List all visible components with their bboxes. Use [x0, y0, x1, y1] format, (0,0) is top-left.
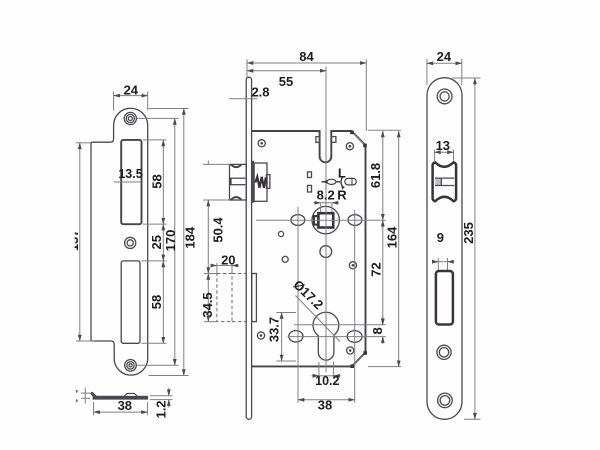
svg-text:8: 8	[370, 327, 385, 334]
svg-text:55: 55	[279, 74, 293, 89]
svg-text:8.2: 8.2	[317, 187, 335, 202]
svg-text:R: R	[337, 188, 347, 203]
svg-text:L: L	[338, 166, 346, 181]
svg-text:164: 164	[385, 226, 400, 248]
svg-text:38: 38	[318, 398, 332, 413]
svg-text:170: 170	[163, 230, 178, 252]
svg-text:13: 13	[436, 138, 450, 153]
svg-text:235: 235	[461, 222, 476, 244]
svg-text:2.8: 2.8	[251, 85, 269, 100]
svg-text:9: 9	[437, 230, 444, 245]
svg-text:24: 24	[437, 49, 452, 64]
svg-text:33.7: 33.7	[267, 317, 282, 342]
svg-text:1.2: 1.2	[154, 400, 169, 418]
svg-text:Ø17.2: Ø17.2	[290, 277, 326, 312]
svg-text:50.4: 50.4	[210, 217, 225, 243]
svg-text:61.8: 61.8	[368, 163, 383, 188]
svg-text:38: 38	[118, 398, 132, 413]
svg-text:84: 84	[299, 49, 314, 64]
svg-text:34.5: 34.5	[200, 292, 215, 317]
svg-text:24: 24	[124, 82, 139, 97]
svg-text:10.2: 10.2	[315, 374, 339, 388]
svg-text:20: 20	[221, 253, 235, 268]
svg-text:58: 58	[149, 295, 164, 309]
svg-text:72: 72	[369, 262, 384, 276]
svg-text:58: 58	[150, 174, 165, 188]
svg-text:184: 184	[183, 226, 198, 248]
svg-text:13.5: 13.5	[118, 167, 142, 181]
